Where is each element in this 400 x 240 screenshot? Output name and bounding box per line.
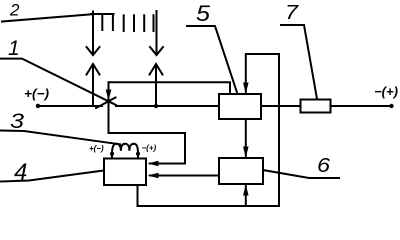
wire bottom into block6: [243, 185, 249, 207]
svg-text:−(+): −(+): [374, 84, 398, 99]
svg-text:6: 6: [317, 155, 331, 177]
svg-text:3: 3: [10, 110, 24, 133]
svg-text:1: 1: [8, 37, 20, 60]
block 5: [219, 94, 261, 119]
control arrow vertical at junction: [106, 82, 112, 133]
wire resistor to terminal: [331, 105, 392, 107]
label 2: [2, 1, 91, 22]
switch blade item 1: [96, 98, 116, 109]
block 4: [104, 159, 146, 186]
wire junction to block5 top: [109, 82, 231, 94]
svg-text:2: 2: [9, 1, 20, 20]
wire block6 to block4: [148, 173, 220, 179]
main wire right: [116, 105, 219, 107]
svg-text:+(−): +(−): [89, 144, 104, 153]
up arrow right: [150, 64, 163, 108]
wire block5 to block6: [243, 119, 249, 158]
main wire left: [38, 105, 102, 107]
control wire to block4 upper: [109, 133, 186, 166]
svg-text:7: 7: [285, 2, 299, 24]
down arrow left: [87, 12, 100, 56]
resistor 7: [301, 100, 331, 113]
label 3: [1, 110, 120, 144]
feedback wire loop: [138, 54, 280, 206]
svg-text:5: 5: [196, 1, 211, 26]
wire block5 to resistor: [261, 105, 301, 107]
radiation comb item 2: [91, 14, 154, 31]
down arrow right: [150, 11, 163, 55]
label 1: [1, 37, 117, 105]
label 5: [187, 1, 238, 94]
arrowhead into block5 top: [243, 83, 249, 94]
block 6: [219, 158, 263, 184]
label 4: [1, 159, 104, 186]
label 7: [281, 2, 317, 99]
coil polarity labels: [89, 143, 157, 153]
label 6: [263, 155, 339, 178]
svg-text:−(+): −(+): [142, 143, 157, 152]
coil item 3: [110, 144, 140, 159]
svg-text:+(−): +(−): [24, 86, 49, 101]
up arrow left: [87, 64, 100, 106]
terminal plus: [24, 86, 49, 108]
terminal minus: [374, 84, 398, 108]
